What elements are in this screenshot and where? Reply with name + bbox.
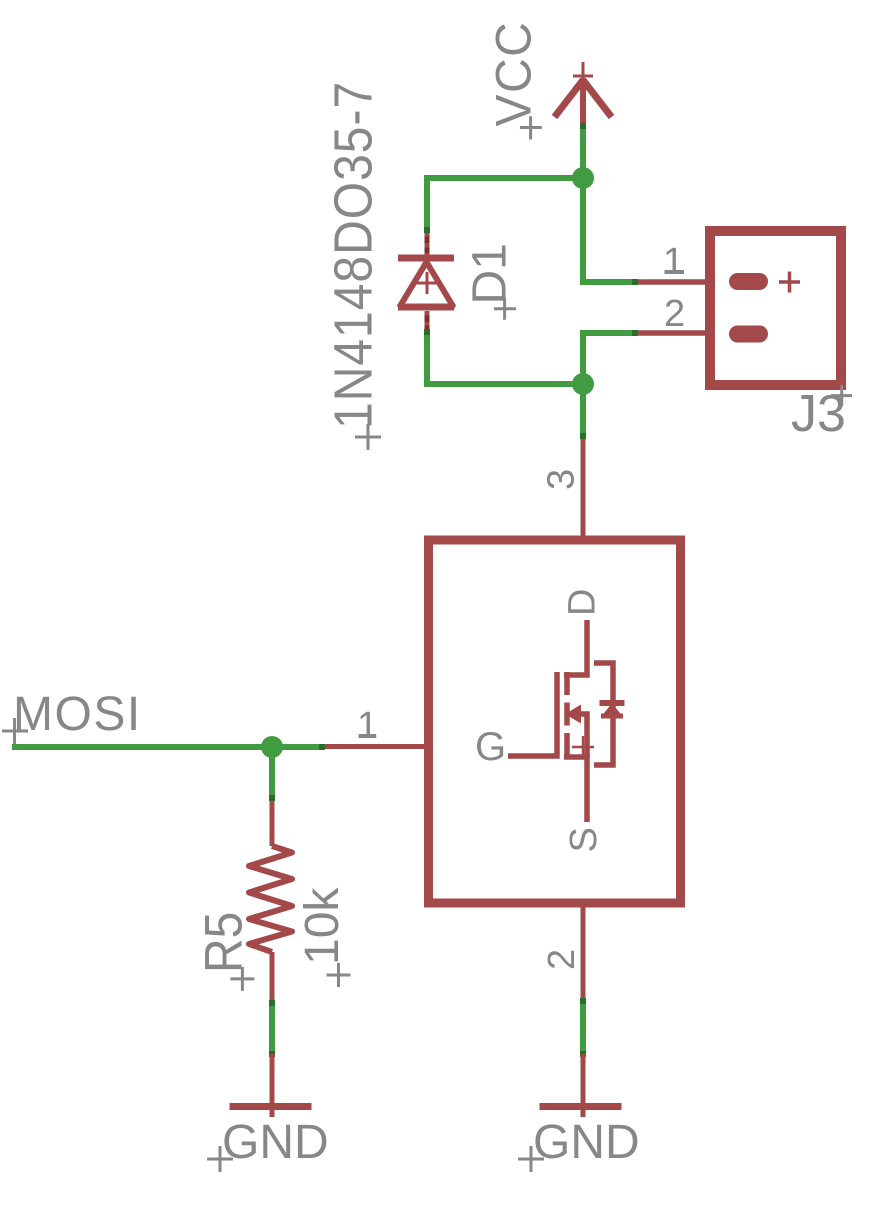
transistor Q1 box: [429, 540, 681, 903]
resistor R5: [249, 798, 292, 1003]
wire-pin joints: [269, 123, 638, 1057]
svg-text:1: 1: [663, 241, 684, 283]
label D1: [464, 243, 517, 320]
svg-text:J3: J3: [791, 385, 846, 443]
mosfet symbol: [508, 620, 587, 822]
wire diode bottom to junction: [427, 332, 583, 384]
label R5: [193, 912, 254, 991]
wire down to R5: [269, 747, 275, 798]
mosfet body arrow: [565, 705, 581, 724]
wire VCC stem: [580, 126, 586, 178]
junction lower node: [572, 373, 594, 395]
pin Q1.3: [581, 437, 586, 540]
ground symbol left: [230, 1054, 312, 1117]
pin Q1.2: [581, 903, 586, 1001]
wire Q1 pin2 to GND: [580, 1001, 586, 1054]
svg-text:10k: 10k: [296, 887, 349, 965]
pin Q1.1: [322, 744, 428, 749]
connector J3: [710, 231, 841, 385]
svg-text:G: G: [475, 725, 506, 769]
pin number 1: [357, 705, 378, 747]
svg-text:D: D: [562, 589, 604, 616]
pin J3.1: [636, 279, 707, 285]
supply symbol VCC: [555, 62, 612, 126]
origin cross Q1: [572, 736, 594, 758]
wire MOSI: [12, 744, 322, 750]
svg-text:D1: D1: [464, 243, 517, 304]
wire right branch down to J3 pin1: [583, 178, 636, 282]
svg-text:GND: GND: [222, 1116, 329, 1169]
label J3: [791, 385, 852, 443]
label VCC: [485, 21, 541, 140]
wire J3 pin2 drop to junction: [583, 333, 636, 384]
label 1N4148DO35-7: [323, 81, 383, 450]
svg-text:3: 3: [541, 469, 583, 490]
label GND left: [207, 1116, 329, 1172]
mosfet body diode: [600, 703, 625, 717]
mosfet body diode bracket: [594, 663, 613, 765]
diode D1: [398, 231, 454, 332]
label 10k: [296, 887, 351, 987]
wire R5 to GND: [269, 1003, 275, 1054]
svg-text:2: 2: [541, 949, 583, 970]
svg-text:MOSI: MOSI: [13, 688, 142, 741]
wire top horizontal to diode: [427, 178, 583, 231]
svg-text:GND: GND: [533, 1116, 640, 1169]
svg-text:R5: R5: [193, 912, 253, 973]
svg-text:1: 1: [357, 705, 378, 747]
wire junction to Q1 pin3: [580, 384, 586, 437]
label MOSI: [2, 688, 142, 744]
svg-text:1N4148DO35-7: 1N4148DO35-7: [323, 81, 383, 429]
pin J3.2: [636, 330, 707, 336]
label GND right: [518, 1116, 640, 1172]
svg-text:2: 2: [664, 293, 685, 335]
svg-text:VCC: VCC: [485, 21, 541, 127]
pin number 1: [663, 241, 684, 283]
ground symbol right: [540, 1054, 622, 1117]
svg-text:S: S: [563, 827, 605, 852]
junction MOSI node: [261, 736, 283, 758]
junction at VCC node: [572, 167, 594, 189]
